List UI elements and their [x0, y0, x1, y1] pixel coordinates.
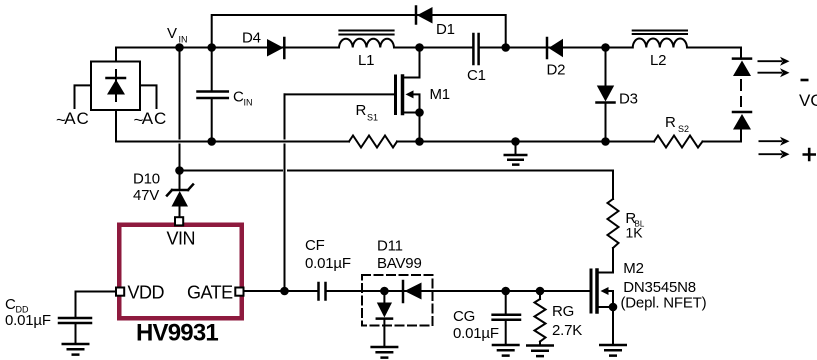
svg-text:0.01µF: 0.01µF	[305, 255, 351, 272]
svg-text:DN3545N8: DN3545N8	[623, 279, 696, 296]
svg-text:AC: AC	[64, 109, 90, 128]
svg-text:0.01µF: 0.01µF	[5, 312, 51, 329]
svg-text:HV9931: HV9931	[136, 320, 218, 347]
svg-text:D10: D10	[133, 171, 160, 188]
svg-text:D1: D1	[436, 21, 455, 38]
svg-text:R: R	[665, 114, 676, 131]
svg-text:D4: D4	[242, 29, 261, 46]
svg-text:L2: L2	[650, 52, 666, 69]
svg-text:BAV99: BAV99	[377, 255, 422, 272]
svg-text:D11: D11	[377, 238, 403, 255]
svg-text:RG: RG	[552, 303, 574, 320]
svg-text:M1: M1	[430, 86, 450, 103]
svg-text:C1: C1	[467, 67, 486, 84]
svg-text:M2: M2	[623, 260, 643, 277]
svg-text:S2: S2	[678, 124, 689, 134]
svg-text:D3: D3	[619, 91, 638, 108]
svg-text:V: V	[167, 25, 177, 42]
svg-text:C: C	[233, 89, 244, 106]
svg-text:1K: 1K	[626, 225, 644, 241]
svg-text:C: C	[5, 296, 16, 313]
svg-text:GATE: GATE	[187, 283, 233, 303]
svg-text:CF: CF	[305, 237, 325, 254]
svg-text:AC: AC	[142, 109, 168, 128]
svg-text:IN: IN	[179, 35, 188, 45]
svg-text:IN: IN	[244, 98, 253, 108]
svg-text:S1: S1	[367, 113, 378, 123]
svg-text:D2: D2	[547, 62, 566, 79]
svg-text:L1: L1	[358, 52, 374, 69]
svg-text:47V: 47V	[133, 187, 159, 204]
svg-text:VO: VO	[799, 91, 817, 110]
svg-text:VDD: VDD	[128, 283, 165, 303]
svg-text:VIN: VIN	[167, 229, 196, 249]
svg-text:0.01µF: 0.01µF	[453, 325, 499, 342]
svg-text:2.7K: 2.7K	[552, 322, 582, 339]
svg-text:(Depl. NFET): (Depl. NFET)	[621, 295, 707, 312]
svg-text:CG: CG	[453, 308, 475, 325]
svg-text:R: R	[356, 102, 367, 119]
